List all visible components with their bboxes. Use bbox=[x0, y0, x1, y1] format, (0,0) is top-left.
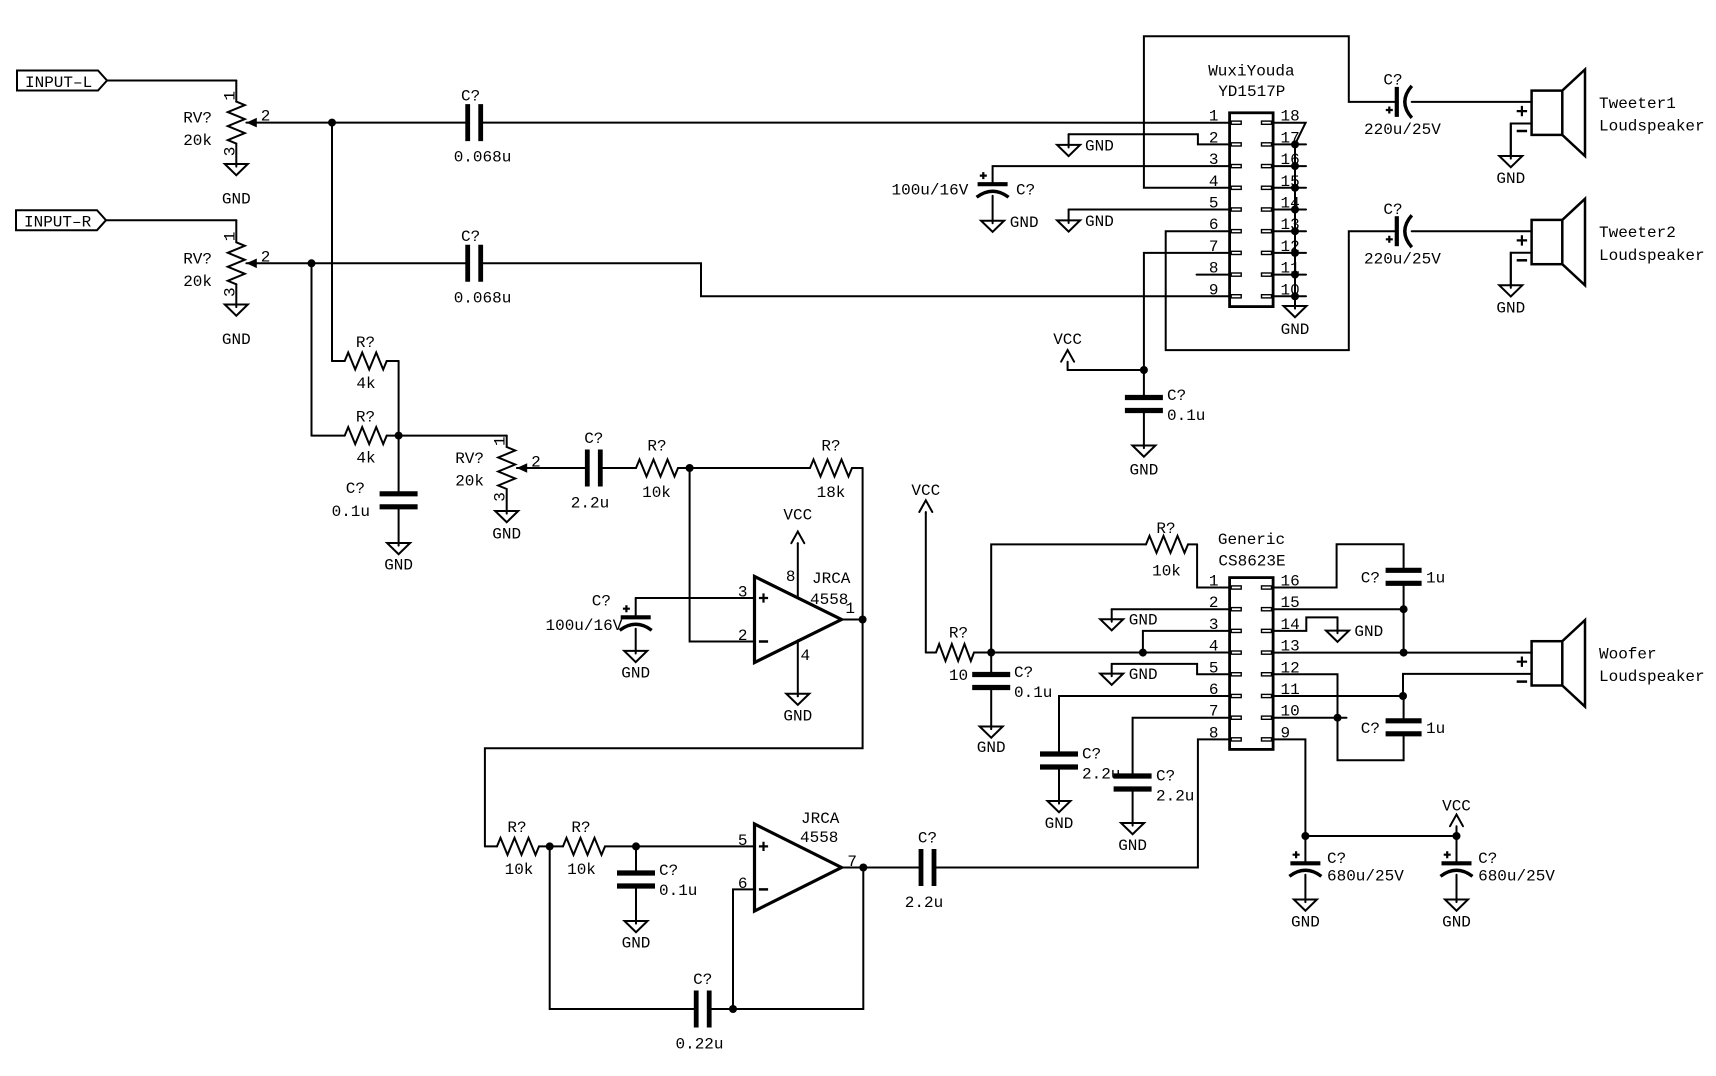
capacitor C15 2.2u bbox=[1114, 768, 1195, 806]
svg-text:Tweeter2: Tweeter2 bbox=[1599, 224, 1676, 242]
wire right-input node down to R2 bbox=[311, 263, 313, 435]
wire U3 pin18 to output bus bbox=[1273, 123, 1306, 145]
svg-text:3: 3 bbox=[221, 287, 239, 297]
svg-text:GND: GND bbox=[1085, 137, 1114, 155]
svg-text:GND: GND bbox=[1129, 612, 1158, 630]
wire U3 pin14 to bus bbox=[1273, 209, 1306, 211]
wire C2 to U3 pin9 bbox=[481, 263, 1230, 296]
junction bus pin10 bbox=[1291, 292, 1299, 300]
svg-text:JRCA: JRCA bbox=[801, 810, 840, 828]
svg-text:220u/25V: 220u/25V bbox=[1364, 250, 1441, 268]
svg-text:220u/25V: 220u/25V bbox=[1364, 121, 1441, 139]
U4 left pin numbers 1-8 bbox=[1209, 573, 1219, 743]
svg-text:1: 1 bbox=[1209, 108, 1219, 126]
svg-text:GND: GND bbox=[1496, 299, 1525, 317]
svg-text:3: 3 bbox=[221, 147, 239, 157]
svg-text:RV?: RV? bbox=[455, 450, 484, 468]
resistor R3 10k bbox=[636, 438, 690, 503]
junction bus pin13 bbox=[1291, 227, 1299, 235]
wire U4 pin11 to node bbox=[1273, 695, 1403, 697]
svg-text:2.2u: 2.2u bbox=[571, 495, 609, 513]
svg-text:C?: C? bbox=[1014, 664, 1033, 682]
junction R7 node bbox=[987, 649, 995, 657]
wire C8 to U4 pin8 bbox=[934, 739, 1230, 867]
capacitor C9 100u/16V bbox=[891, 172, 1035, 200]
capacitor C2 0.068u bbox=[454, 228, 512, 307]
power VCC at U1 pin8 bbox=[783, 506, 812, 597]
capacitor C6 0.1u bbox=[617, 846, 697, 900]
svg-text:2: 2 bbox=[738, 627, 748, 645]
junction VCC/C10 node bbox=[1140, 366, 1148, 374]
svg-text:VCC: VCC bbox=[1442, 797, 1471, 815]
capacitor C12 220u/25V bbox=[1364, 201, 1441, 268]
svg-text:18k: 18k bbox=[817, 484, 846, 502]
svg-text:C?: C? bbox=[461, 87, 480, 105]
capacitor C1 0.068u bbox=[454, 87, 512, 166]
junction U1 output bbox=[859, 616, 867, 624]
wire U3 pin2 to ground bbox=[1069, 134, 1230, 144]
potentiometer RV1 20k (left volume) bbox=[183, 81, 270, 209]
svg-text:1u: 1u bbox=[1426, 720, 1445, 738]
svg-text:10k: 10k bbox=[642, 484, 671, 502]
capacitor C10 0.1u (decoupling) bbox=[1125, 370, 1206, 425]
wire U4 pin2 to ground bbox=[1112, 608, 1230, 610]
svg-text:0.068u: 0.068u bbox=[454, 289, 512, 307]
svg-text:4k: 4k bbox=[356, 450, 375, 468]
svg-text:0.1u: 0.1u bbox=[1014, 684, 1052, 702]
svg-text:GND: GND bbox=[384, 557, 413, 575]
svg-text:WuxiYouda: WuxiYouda bbox=[1208, 63, 1295, 81]
wire input node down to U1 pin2 bbox=[690, 468, 755, 642]
svg-text:INPUT–L: INPUT–L bbox=[25, 74, 92, 92]
ground below C10 bbox=[1143, 411, 1145, 449]
svg-text:GND: GND bbox=[1129, 666, 1158, 684]
wire Tweeter1 minus to ground bbox=[1511, 124, 1532, 157]
svg-text:C?: C? bbox=[1383, 72, 1402, 90]
wire U3 pin15 to bus bbox=[1273, 187, 1306, 189]
ground below C19 bbox=[1456, 875, 1458, 902]
op-amp U2B JRCA 4558 bbox=[738, 810, 857, 911]
wire U4 pin3 down to input node bbox=[1143, 631, 1230, 653]
svg-text:1u: 1u bbox=[1426, 569, 1445, 587]
power VCC at output caps bbox=[1442, 797, 1471, 836]
wire U3 pin4 over the top to C11 bbox=[1144, 36, 1395, 188]
svg-text:C?: C? bbox=[1383, 201, 1402, 219]
svg-text:C?: C? bbox=[1156, 768, 1175, 786]
svg-text:R?: R? bbox=[949, 625, 968, 643]
svg-text:3: 3 bbox=[738, 584, 748, 602]
svg-text:2.2u: 2.2u bbox=[905, 894, 943, 912]
junction U2 output bbox=[859, 864, 867, 872]
wire U3 pin8 stub bbox=[1197, 274, 1230, 276]
svg-text:R?: R? bbox=[1156, 520, 1175, 538]
wire U4 pin9 down to C18 bbox=[1273, 739, 1305, 836]
svg-text:GND: GND bbox=[977, 739, 1006, 757]
wire U3 pin13 to bus bbox=[1273, 230, 1306, 232]
svg-text:VCC: VCC bbox=[911, 482, 940, 500]
wire U2 pin6 to feedback node bbox=[733, 889, 755, 1009]
IC U4 Generic CS8623E bbox=[1218, 531, 1286, 749]
connector flag INPUT-L bbox=[17, 71, 107, 92]
wire U3 pin12 to bus bbox=[1273, 252, 1306, 254]
svg-text:10: 10 bbox=[949, 667, 968, 685]
svg-text:0.1u: 0.1u bbox=[659, 882, 697, 900]
svg-text:100u/16V: 100u/16V bbox=[545, 617, 622, 635]
wire U4 pin7 to C15 bbox=[1133, 718, 1230, 776]
svg-text:JRCA: JRCA bbox=[812, 570, 851, 588]
junction node right-input bbox=[308, 259, 316, 267]
capacitor C16 1u bbox=[1361, 569, 1445, 587]
ground at U4 pin5 bbox=[1111, 664, 1113, 676]
wire R7 node to U4 pin4 bbox=[991, 652, 1229, 654]
svg-text:VCC: VCC bbox=[1053, 331, 1082, 349]
wire R4 down to U1 output bbox=[862, 468, 864, 620]
capacitor C7 0.22u (feedback) bbox=[675, 971, 723, 1054]
svg-text:8: 8 bbox=[786, 568, 796, 586]
ground at U1 pin4 bbox=[783, 640, 812, 725]
wire INPUT-L to RV1 pin1 bbox=[107, 80, 236, 82]
svg-text:Woofer: Woofer bbox=[1599, 645, 1657, 663]
svg-text:10k: 10k bbox=[1152, 563, 1181, 581]
ground below C13 bbox=[990, 688, 992, 730]
svg-text:0.1u: 0.1u bbox=[1167, 407, 1205, 425]
svg-text:VCC: VCC bbox=[783, 506, 812, 524]
wire Woofer minus down bbox=[1403, 674, 1532, 696]
svg-text:Generic: Generic bbox=[1218, 531, 1285, 549]
junction U2 pin5 node bbox=[632, 842, 640, 850]
wire R7 node up to R8 bbox=[991, 544, 1146, 652]
svg-text:100u/16V: 100u/16V bbox=[891, 182, 968, 200]
svg-text:GND: GND bbox=[1281, 321, 1310, 339]
svg-text:10k: 10k bbox=[505, 861, 534, 879]
wire U3 pin10 to bus bbox=[1273, 295, 1306, 297]
wire Tweeter2 minus to ground bbox=[1511, 253, 1532, 285]
wire U1 output to second stage bbox=[485, 620, 863, 847]
junction bus pin11 bbox=[1291, 271, 1299, 279]
svg-text:GND: GND bbox=[222, 191, 251, 209]
wire U4 pin14 to ground bbox=[1273, 617, 1337, 631]
svg-text:RV?: RV? bbox=[183, 250, 212, 268]
svg-text:R?: R? bbox=[507, 819, 526, 837]
svg-text:GND: GND bbox=[783, 708, 812, 726]
svg-text:C?: C? bbox=[346, 480, 365, 498]
ground at U4 pin2 bbox=[1111, 609, 1113, 622]
svg-text:8: 8 bbox=[1209, 724, 1219, 742]
svg-text:C?: C? bbox=[659, 862, 678, 880]
junction bus pin12 bbox=[1291, 249, 1299, 257]
wire VCC down to R7 bbox=[925, 513, 927, 653]
svg-text:4: 4 bbox=[801, 647, 811, 665]
svg-text:1: 1 bbox=[221, 91, 239, 101]
svg-text:C?: C? bbox=[693, 971, 712, 989]
U4 right pin numbers 16-9 bbox=[1281, 573, 1300, 743]
capacitor C18 680u/25V bbox=[1289, 836, 1404, 885]
svg-text:GND: GND bbox=[1129, 462, 1158, 480]
wire U4 pin15 to bus bbox=[1273, 608, 1404, 610]
svg-text:C?: C? bbox=[1082, 746, 1101, 764]
svg-text:YD1517P: YD1517P bbox=[1218, 83, 1285, 101]
svg-text:GND: GND bbox=[1496, 170, 1525, 188]
svg-text:C?: C? bbox=[1016, 182, 1035, 200]
svg-text:C?: C? bbox=[1478, 850, 1497, 868]
junction pin11 node bbox=[1399, 692, 1407, 700]
ground at Tweeter1 bbox=[1510, 124, 1512, 159]
svg-text:GND: GND bbox=[1045, 815, 1074, 833]
svg-text:4k: 4k bbox=[356, 375, 375, 393]
junction bus pin14 bbox=[1291, 206, 1299, 214]
svg-text:GND: GND bbox=[1010, 214, 1039, 232]
wire C11 to Tweeter1 bbox=[1412, 101, 1532, 103]
svg-text:GND: GND bbox=[622, 935, 651, 953]
wire C4 to R3 bbox=[600, 467, 636, 469]
ground below C3 bbox=[398, 507, 400, 546]
svg-text:680u/25V: 680u/25V bbox=[1478, 867, 1555, 885]
junction bus pin15 bbox=[1291, 184, 1299, 192]
junction op-amp input node bbox=[686, 464, 694, 472]
svg-text:Loudspeaker: Loudspeaker bbox=[1599, 118, 1705, 136]
svg-text:C?: C? bbox=[1167, 387, 1186, 405]
junction R5/R6 node bbox=[546, 842, 554, 850]
svg-text:GND: GND bbox=[1442, 914, 1471, 932]
svg-text:C?: C? bbox=[1361, 720, 1380, 738]
ground below C15 bbox=[1132, 789, 1134, 826]
svg-text:Loudspeaker: Loudspeaker bbox=[1599, 247, 1705, 265]
ground at Tweeter2 bbox=[1510, 253, 1512, 288]
ground at U3 pin5 bbox=[1068, 210, 1070, 224]
potentiometer RV3 20k (bass level) bbox=[455, 436, 541, 544]
wire C12 to Tweeter2 bbox=[1412, 230, 1532, 232]
wire U3 pin5 to ground bbox=[1069, 209, 1230, 211]
resistor R5 10k bbox=[485, 819, 550, 879]
svg-text:GND: GND bbox=[1354, 623, 1383, 641]
wire U4 pin10 to pin12 loop bbox=[1273, 717, 1346, 719]
wire U3 pin6 under to C12 bbox=[1166, 231, 1395, 350]
wire INPUT-R to RV2 pin1 bbox=[106, 219, 236, 221]
ground below C14 bbox=[1058, 767, 1060, 804]
svg-text:1: 1 bbox=[492, 436, 510, 446]
svg-text:20k: 20k bbox=[183, 273, 212, 291]
potentiometer RV2 20k (right volume) bbox=[183, 220, 270, 349]
wire C7 to R5/R6 node bbox=[550, 846, 697, 1009]
wire RV2 wiper to C2 bbox=[246, 262, 467, 264]
svg-text:0.1u: 0.1u bbox=[332, 503, 370, 521]
capacitor C4 2.2u bbox=[571, 430, 609, 513]
resistor R7 10 bbox=[926, 625, 991, 686]
junction bus pin13 bbox=[1400, 649, 1408, 657]
wire U3 pin16 to bus bbox=[1273, 165, 1306, 167]
svg-text:0.068u: 0.068u bbox=[454, 149, 512, 167]
power VCC for U3 bbox=[1053, 331, 1144, 370]
svg-text:C?: C? bbox=[1327, 850, 1346, 868]
capacitor C14 2.2u bbox=[1040, 746, 1120, 784]
svg-text:GND: GND bbox=[222, 331, 251, 349]
junction C18 node bbox=[1301, 832, 1309, 840]
junction bus pin17 bbox=[1291, 140, 1299, 148]
svg-text:680u/25V: 680u/25V bbox=[1327, 867, 1404, 885]
svg-text:GND: GND bbox=[1085, 213, 1114, 231]
svg-text:5: 5 bbox=[738, 832, 748, 850]
resistor R6 10k bbox=[550, 819, 636, 879]
junction bus pin16 bbox=[1291, 162, 1299, 170]
svg-text:0.22u: 0.22u bbox=[675, 1036, 723, 1054]
connector flag INPUT-R bbox=[16, 210, 106, 231]
capacitor C8 2.2u (sub out) bbox=[905, 830, 943, 913]
bus wire U3 right pins bbox=[1294, 144, 1296, 296]
ground below C5 bbox=[635, 629, 637, 654]
IC U3 WuxiYouda YD1517P bbox=[1208, 63, 1295, 307]
svg-text:GND: GND bbox=[1291, 914, 1320, 932]
svg-text:CS8623E: CS8623E bbox=[1218, 553, 1285, 571]
svg-text:4558: 4558 bbox=[810, 591, 848, 609]
svg-text:R?: R? bbox=[356, 334, 375, 352]
svg-text:20k: 20k bbox=[455, 473, 484, 491]
svg-text:GND: GND bbox=[1118, 837, 1147, 855]
wire C5 to U1 pin3 bbox=[636, 597, 755, 599]
svg-text:C?: C? bbox=[461, 228, 480, 246]
svg-text:Loudspeaker: Loudspeaker bbox=[1599, 668, 1705, 686]
wire U1 output bbox=[842, 619, 863, 621]
resistor R2 4k bbox=[312, 409, 399, 468]
svg-text:2.2u: 2.2u bbox=[1156, 788, 1194, 806]
wire U3 pin17 to bus bbox=[1273, 143, 1306, 145]
ground at U4 pin14 bbox=[1337, 617, 1339, 633]
svg-text:C?: C? bbox=[1361, 569, 1380, 587]
ground below U3 bus bbox=[1294, 296, 1296, 308]
capacitor C5 100u/16V (bias) bbox=[545, 593, 651, 636]
svg-text:C?: C? bbox=[584, 430, 603, 448]
speaker LS1 Tweeter1 bbox=[1517, 70, 1705, 157]
wire U3 pin11 to bus bbox=[1273, 274, 1306, 276]
svg-text:4558: 4558 bbox=[800, 829, 838, 847]
wire U4 pin13 to Woofer plus bbox=[1273, 652, 1532, 654]
ground below C6 bbox=[635, 886, 637, 924]
U3 left pin numbers 1-9 bbox=[1209, 108, 1219, 300]
wire mix node to RV3 bbox=[399, 435, 507, 437]
svg-text:3: 3 bbox=[492, 492, 510, 502]
speaker LS3 Woofer bbox=[1517, 620, 1705, 707]
svg-text:GND: GND bbox=[492, 526, 521, 544]
junction pin10 node bbox=[1334, 714, 1342, 722]
wire U4 pin16 to C16 bbox=[1273, 544, 1404, 587]
wire U2 output feedback loop bbox=[709, 868, 863, 1010]
resistor R4 18k (feedback) bbox=[690, 438, 863, 503]
svg-text:9: 9 bbox=[1209, 281, 1219, 299]
wire left-input node down to R1 bbox=[331, 123, 333, 361]
capacitor C11 220u/25V bbox=[1364, 72, 1441, 140]
ground below C18 bbox=[1304, 875, 1306, 902]
svg-text:R?: R? bbox=[821, 438, 840, 456]
speaker LS2 Tweeter2 bbox=[1517, 199, 1705, 285]
svg-text:R?: R? bbox=[571, 819, 590, 837]
svg-text:RV?: RV? bbox=[183, 110, 212, 128]
wire U2 output to C8 bbox=[842, 867, 922, 869]
svg-text:INPUT–R: INPUT–R bbox=[24, 214, 92, 232]
junction node left-input bbox=[328, 119, 336, 127]
wire U4 pin6 to C14 bbox=[1059, 696, 1230, 754]
svg-text:C?: C? bbox=[592, 593, 611, 611]
capacitor C17 1u bbox=[1361, 696, 1445, 738]
wire U3 pin7 to VCC node bbox=[1144, 253, 1230, 370]
wire RV3 wiper to C4 bbox=[517, 467, 587, 469]
wire R8 to U4 pin1 bbox=[1197, 544, 1230, 587]
wire C1 to U3 pin1 bbox=[481, 122, 1230, 124]
U3 right pin numbers 18-10 bbox=[1281, 108, 1300, 300]
svg-text:1: 1 bbox=[221, 232, 239, 242]
svg-text:10k: 10k bbox=[567, 861, 596, 879]
svg-text:GND: GND bbox=[621, 664, 650, 682]
capacitor C3 0.1u bbox=[332, 436, 418, 521]
op-amp U1A JRCA 4558 bbox=[738, 568, 855, 665]
wire U3 pin3 to C9 bbox=[993, 166, 1230, 182]
junction mix node bbox=[395, 432, 403, 440]
capacitor C19 680u/25V bbox=[1441, 836, 1556, 885]
junction bus pin15 bbox=[1400, 605, 1408, 613]
capacitor C13 0.1u bbox=[972, 653, 1052, 703]
power VCC for U4 bbox=[911, 482, 940, 513]
wire C16 down the output bus bbox=[1403, 583, 1405, 652]
junction VCC/C19 node bbox=[1453, 832, 1461, 840]
wire C18 node to VCC node bbox=[1305, 835, 1456, 837]
junction feedback node bbox=[729, 1005, 737, 1013]
ground below C9 bbox=[981, 196, 1039, 232]
wire U4 pin5 to ground bbox=[1112, 664, 1230, 674]
wire node to U2 pin5 bbox=[636, 845, 755, 847]
wire R1 to mix node bbox=[398, 361, 400, 436]
svg-text:20k: 20k bbox=[183, 132, 212, 150]
svg-text:Tweeter1: Tweeter1 bbox=[1599, 95, 1676, 113]
resistor R1 4k bbox=[332, 334, 399, 393]
ground at U3 pin2 bbox=[1068, 134, 1070, 147]
wire U4 pin12 loop under C17 bbox=[1273, 674, 1404, 760]
junction pin3/pin4 node bbox=[1139, 649, 1147, 657]
wire RV1 wiper to C1 bbox=[246, 122, 467, 124]
svg-text:R?: R? bbox=[647, 438, 666, 456]
svg-text:C?: C? bbox=[918, 830, 937, 848]
svg-text:R?: R? bbox=[356, 409, 375, 427]
resistor R8 10k bbox=[1146, 520, 1197, 581]
